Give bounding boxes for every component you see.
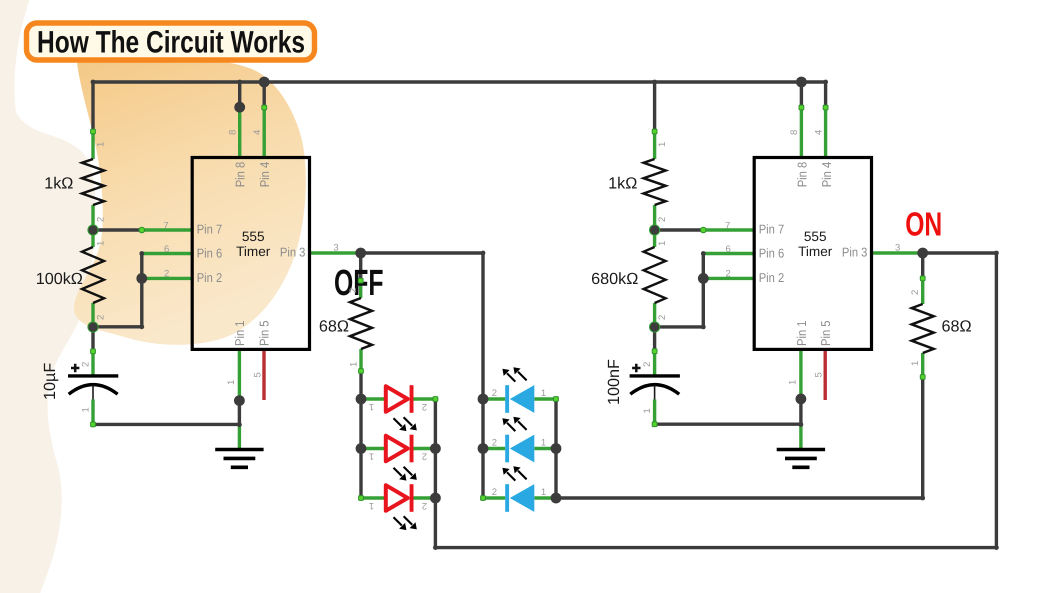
bend point return top corner [994, 251, 999, 256]
svg-text:2: 2 [164, 269, 169, 280]
lead red LED D2 right green [413, 447, 435, 450]
junction dot pin1 left [234, 395, 245, 406]
svg-text:4: 4 [813, 130, 824, 135]
svg-text:555: 555 [242, 229, 265, 244]
wire right vcc drop to R4 [653, 82, 656, 132]
lead R2 bottom green [91, 303, 94, 327]
ground left [215, 450, 263, 468]
lead 68ohm left bottom green [359, 349, 362, 371]
bend point tie right bottom [701, 325, 706, 330]
svg-text:4: 4 [252, 130, 263, 135]
background peach blob [74, 57, 306, 345]
svg-text:2: 2 [492, 438, 497, 449]
LED blue D6 [502, 466, 534, 512]
wire end cap blue row1 right [554, 397, 559, 402]
svg-text:2: 2 [96, 217, 107, 222]
svg-text:Timer: Timer [798, 244, 833, 259]
wire end cap pin4 right [823, 105, 828, 110]
junction dot red rail row2 [356, 443, 367, 454]
junction dot red rail right row3 [430, 493, 441, 504]
svg-text:5: 5 [814, 372, 825, 377]
lead red LED D3 left green [361, 496, 385, 499]
svg-text:Pin 1: Pin 1 [232, 321, 247, 347]
svg-text:1: 1 [657, 241, 668, 246]
junction dot pin8 left lead [234, 102, 245, 113]
wire end cap pin4 left [262, 105, 267, 110]
resistor R3 68ohm left [350, 298, 372, 349]
lead pin4 left green [263, 108, 266, 158]
lead ground right green [799, 425, 802, 450]
svg-text:Pin 7: Pin 7 [759, 222, 785, 237]
lead R1 top green [91, 132, 94, 160]
svg-text:2: 2 [642, 362, 653, 367]
svg-text:6: 6 [725, 244, 730, 255]
wire C2 bottom to ground rail right [655, 423, 801, 426]
svg-text:1: 1 [369, 451, 374, 462]
wire pin4 right drop [824, 82, 827, 108]
junction dot rail / pin8 right [796, 77, 807, 88]
junction dot rail / pin4 left [259, 77, 270, 88]
LED blue D4 [502, 367, 534, 413]
svg-text:Pin 6: Pin 6 [759, 246, 785, 261]
wire end cap C2 top [652, 349, 657, 354]
svg-text:680kΩ: 680kΩ [591, 270, 638, 288]
lead pin1 right green [799, 349, 802, 399]
wire pin1 right to ground [799, 399, 802, 425]
wire end cap pin8 right [799, 105, 804, 110]
lead C2 top green [653, 351, 656, 376]
lead 68ohm right bottom green [921, 353, 924, 377]
wire end cap R4 top [652, 129, 657, 134]
op-amp U1 555 timer left box [192, 158, 309, 350]
LED red D3 [386, 484, 417, 530]
bend point rail right corner [652, 80, 657, 85]
bend point gnd left node [237, 422, 242, 427]
LED red D1 [386, 385, 417, 431]
wire C1 bottom to ground rail [93, 423, 239, 426]
capacitor C2 stub [654, 385, 656, 400]
wire R1-R2 junction to pin7 [93, 228, 142, 231]
junction dot R4-R5 node [649, 224, 660, 235]
svg-text:Pin 8: Pin 8 [794, 162, 809, 188]
svg-text:3: 3 [333, 243, 338, 254]
bend point 68ohm right bottom node [920, 496, 925, 501]
lead blue LED D4 left green [483, 397, 505, 400]
title box [27, 23, 315, 60]
bend point rail left corner [91, 80, 96, 85]
wire end cap R6 bottom [920, 375, 925, 380]
wire red LED right rail to bottom return [435, 253, 996, 548]
resistor R6 68ohm right [912, 304, 934, 353]
svg-text:2: 2 [492, 487, 497, 498]
wire pin8 left drop [238, 82, 241, 107]
svg-text:2: 2 [657, 315, 668, 320]
svg-text:1: 1 [226, 380, 237, 385]
bend point tie left bottom [139, 324, 144, 329]
svg-text:Pin 6: Pin 6 [197, 246, 223, 261]
svg-text:2: 2 [96, 315, 107, 320]
wire R3 68ohm bottom to red LED rail [359, 371, 362, 399]
junction dot R2-C1 node [87, 321, 98, 332]
wire pin1 left to ground [238, 401, 241, 425]
wire pin3 junction down to R6 68ohm right [921, 253, 924, 278]
capacitor C1 10uF plus sign [71, 364, 79, 372]
op-amp U2 555 timer right box [754, 158, 871, 350]
svg-text:2: 2 [348, 288, 359, 293]
capacitor C2 100nF plus sign [632, 364, 640, 372]
lead pin6 left green [142, 252, 192, 255]
lead pin4 right green [824, 108, 827, 158]
svg-text:Pin 3: Pin 3 [842, 245, 868, 260]
lead pin2 left green [142, 277, 192, 280]
svg-text:10µF: 10µF [41, 363, 59, 400]
svg-text:1: 1 [910, 361, 921, 366]
svg-text:Pin 8: Pin 8 [232, 162, 247, 188]
svg-text:1: 1 [349, 362, 360, 367]
svg-text:2: 2 [422, 401, 427, 412]
svg-text:1: 1 [541, 438, 546, 449]
resistor R2 100k left [82, 247, 104, 303]
lead ground left green [238, 425, 241, 449]
wire end cap R3 top [358, 278, 363, 283]
wire pin6/pin2 tie-down right [655, 254, 704, 327]
lead blue LED D6 left green [483, 496, 505, 499]
wire end cap blue row3 left [481, 496, 486, 501]
svg-text:2: 2 [81, 362, 92, 367]
lead red LED D1 left green [361, 397, 385, 400]
svg-text:100kΩ: 100kΩ [36, 270, 83, 288]
wire end cap red row1 right [433, 397, 438, 402]
svg-text:68Ω: 68Ω [942, 318, 972, 336]
junction dot pin2 right tie [698, 273, 709, 284]
wire pin4 left drop [263, 82, 266, 108]
junction dot pin3 left net [355, 248, 366, 259]
svg-text:Pin 4: Pin 4 [819, 162, 834, 188]
ground right [777, 450, 825, 468]
bend point gnd right node [799, 422, 804, 427]
junction dot blue rail row1 [478, 394, 489, 405]
wire end cap C1 top [91, 349, 96, 354]
pin5 right red stub [824, 349, 827, 400]
lead pin1 left green [238, 349, 241, 400]
lead pin8 right green [800, 108, 803, 158]
bend point pin6 left tie [139, 251, 144, 256]
wire pin8 right drop [800, 82, 803, 108]
bend point rail end right [823, 80, 828, 85]
lead C1 top green [91, 351, 94, 376]
junction dot pin2 left tie [136, 273, 147, 284]
lead R4 top green [653, 132, 656, 160]
junction dot blue rail row2 [478, 443, 489, 454]
svg-text:1kΩ: 1kΩ [608, 174, 637, 192]
svg-text:555: 555 [804, 229, 827, 244]
svg-text:1: 1 [369, 401, 374, 412]
lead R4 bottom / R5 top green [653, 205, 656, 247]
svg-text:ON: ON [905, 207, 942, 244]
svg-text:Pin 2: Pin 2 [197, 270, 223, 285]
wire blue LED left rail [481, 399, 484, 498]
svg-text:Pin 5: Pin 5 [257, 321, 272, 347]
lead red LED D1 right green [413, 397, 435, 400]
capacitor C2 top plate [630, 374, 680, 377]
lead blue LED D5 right green [534, 447, 556, 450]
wire 68ohm right bottom drop [921, 377, 924, 498]
lead blue LED D5 left green [483, 447, 505, 450]
bend point red rail bottom corner [433, 545, 438, 550]
svg-text:6: 6 [164, 244, 169, 255]
svg-text:68Ω: 68Ω [319, 318, 349, 336]
svg-text:1: 1 [369, 500, 374, 511]
resistor R1 1k left [82, 159, 104, 205]
svg-text:2: 2 [910, 290, 921, 295]
lead blue LED D6 right green [534, 496, 556, 499]
lead pin7 right green [703, 228, 754, 231]
junction dot R5-C2 node [649, 321, 660, 332]
svg-text:1: 1 [541, 388, 546, 399]
wire junction to capacitor C1 [91, 327, 94, 351]
bend point rail pin8 left [237, 80, 242, 85]
junction dot R1-R2 node [87, 224, 98, 235]
svg-text:1: 1 [96, 241, 107, 246]
svg-text:1: 1 [81, 407, 92, 412]
svg-text:1kΩ: 1kΩ [44, 174, 73, 192]
junction dot red rail right row2 [430, 443, 441, 454]
svg-text:8: 8 [789, 130, 800, 135]
lead blue LED D4 right green [534, 397, 556, 400]
wire pin3 left to blue LED rail [361, 253, 483, 399]
capacitor C1 curved plate [69, 385, 118, 395]
svg-text:5: 5 [253, 372, 264, 377]
wire end cap C1 bottom [91, 422, 96, 427]
wire top power rail [93, 80, 826, 83]
capacitor C2 curved plate [630, 385, 679, 395]
svg-text:2: 2 [422, 500, 427, 511]
svg-text:2: 2 [725, 269, 730, 280]
wire pin3 junction down to R3 68ohm left [359, 253, 362, 281]
junction dot blue rail right row2 [551, 443, 562, 454]
svg-text:Pin 7: Pin 7 [197, 222, 223, 237]
lead pin2 right green [703, 277, 754, 280]
lead red LED D3 right green [413, 496, 435, 499]
resistor R5 680k right [644, 247, 666, 303]
wire end cap red row3 left [359, 496, 364, 501]
wire left vcc drop to R1 [91, 82, 94, 132]
svg-text:100nF: 100nF [605, 359, 623, 405]
svg-text:8: 8 [228, 130, 239, 135]
junction dot red rail row1 [356, 394, 367, 405]
bend point pin6 right tie [701, 251, 706, 256]
bend point return bottom corner [994, 545, 999, 550]
wire end cap C2 bottom [652, 422, 657, 427]
wire junction to capacitor C2 [653, 327, 656, 351]
svg-text:Pin 3: Pin 3 [280, 245, 306, 260]
lead pin7 left green [142, 228, 192, 231]
wire blue LED right rail to 68ohm right [556, 399, 923, 498]
svg-text:Pin 1: Pin 1 [794, 321, 809, 347]
svg-text:2: 2 [492, 388, 497, 399]
wire end cap R6 top [920, 276, 925, 281]
svg-text:7: 7 [725, 220, 730, 231]
junction dot blue rail right row3 [551, 493, 562, 504]
wire end cap R1 top [91, 129, 96, 134]
lead 68ohm left top green [359, 281, 362, 298]
capacitor C1 stub [92, 385, 94, 400]
svg-text:Pin 4: Pin 4 [257, 162, 272, 188]
background pale blob left edge [0, 0, 96, 593]
bend point green pin7 right bend [701, 227, 707, 233]
resistor R4 1k right [644, 159, 666, 205]
lead C1 bottom green [91, 400, 94, 425]
svg-text:Pin 2: Pin 2 [759, 270, 785, 285]
lead pin3 right green [872, 251, 923, 254]
capacitor C1 top plate [68, 374, 118, 377]
LED red D2 [386, 435, 417, 481]
svg-text:2: 2 [657, 217, 668, 222]
junction dot pin1 right [796, 394, 807, 405]
pin5 left red stub [262, 349, 265, 400]
lead pin8 left green [238, 107, 241, 157]
lead pin6 right green [703, 252, 754, 255]
lead red LED D2 left green [361, 447, 385, 450]
svg-text:1: 1 [96, 142, 107, 147]
lead R5 bottom green [653, 303, 656, 327]
bend point blue rail top corner [481, 251, 486, 256]
wire R4-R5 junction to pin7 right [655, 228, 704, 231]
wire pin6/pin2 tie-down left [93, 254, 142, 327]
wire end cap R3 bottom [359, 369, 364, 374]
lead R1 bottom / R2 top green [91, 205, 94, 247]
svg-text:How The Circuit Works: How The Circuit Works [37, 24, 305, 59]
svg-text:1: 1 [787, 380, 798, 385]
svg-text:1: 1 [657, 142, 668, 147]
svg-text:Pin 5: Pin 5 [818, 321, 833, 347]
lead C2 bottom green [653, 400, 656, 425]
junction dot pin3 right net [917, 248, 928, 259]
svg-text:7: 7 [163, 220, 168, 231]
lead pin3 left green [310, 251, 361, 254]
bend point green pin7 left bend [139, 227, 145, 233]
lead 68ohm right top green [921, 278, 924, 304]
wire red LED left rail [359, 399, 362, 498]
svg-text:1: 1 [541, 487, 546, 498]
svg-text:Timer: Timer [236, 244, 271, 259]
svg-text:1: 1 [642, 408, 653, 413]
svg-text:2: 2 [422, 451, 427, 462]
svg-text:3: 3 [895, 243, 900, 254]
LED blue D5 [502, 417, 534, 463]
